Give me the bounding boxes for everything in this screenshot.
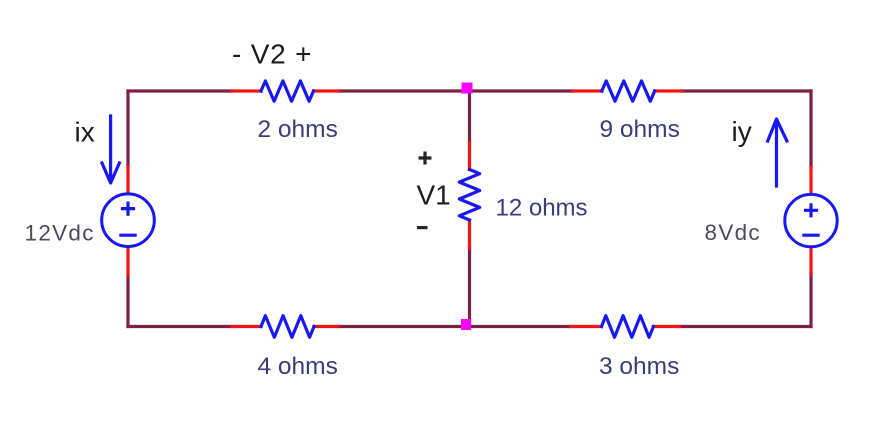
pin lead V12dc bottom <box>126 247 129 275</box>
wire left vertical lower <box>126 275 129 327</box>
source V2 plus sign <box>806 205 817 216</box>
resistor 9 ohms zigzag <box>602 81 655 101</box>
pin lead R12 bottom <box>468 220 471 248</box>
source V1 plus sign <box>123 203 134 214</box>
source V2 minus sign <box>804 234 818 237</box>
pin lead R4 left <box>232 325 261 328</box>
pin lead V12dc top <box>126 167 129 194</box>
pin lead R9 right <box>655 89 682 92</box>
wire middle vertical upper <box>468 91 471 143</box>
wire middle vertical lower <box>468 248 471 327</box>
source V2 8Vdc circle <box>785 194 837 246</box>
resistor 4 ohms zigzag <box>261 316 314 338</box>
wire bottom-left segment <box>128 325 232 328</box>
pin lead V8dc bottom <box>809 247 812 274</box>
wire top-middle segment <box>339 89 573 92</box>
pin lead R4 right <box>314 325 338 328</box>
label V1 minus sign <box>417 226 428 229</box>
wire left vertical upper <box>126 91 129 167</box>
wire top-left segment <box>128 89 232 92</box>
svg-text:2 ohms: 2 ohms <box>258 116 338 143</box>
source V1 minus sign <box>121 234 135 237</box>
svg-text:- V2 +: - V2 + <box>232 39 312 70</box>
svg-text:9 ohms: 9 ohms <box>600 116 680 143</box>
svg-text:4 ohms: 4 ohms <box>258 353 338 380</box>
svg-text:ix: ix <box>75 117 95 148</box>
svg-text:8Vdc: 8Vdc <box>705 220 761 245</box>
svg-text:3 ohms: 3 ohms <box>599 353 679 380</box>
wire right vertical upper <box>809 91 812 168</box>
current arrow iy <box>768 119 787 186</box>
label V1 plus sign <box>419 152 432 165</box>
pin lead R3 left <box>571 325 602 328</box>
current arrow ix <box>102 116 119 183</box>
svg-text:iy: iy <box>732 116 752 147</box>
wire bottom-right segment <box>679 325 811 328</box>
wire bottom-middle segment <box>338 325 571 328</box>
wire top-right segment <box>682 89 811 92</box>
pin lead R9 left <box>573 89 602 92</box>
pin lead R2 right <box>314 89 339 92</box>
wire right vertical lower <box>809 273 812 326</box>
resistor 2 ohms zigzag <box>261 81 314 101</box>
pin lead R12 top <box>468 143 471 170</box>
source V1 12Vdc circle <box>102 194 155 247</box>
resistor 3 ohms zigzag <box>602 316 654 338</box>
pin lead R2 left <box>232 89 262 92</box>
pin lead V8dc top <box>809 168 812 195</box>
resistor 12 ohms zigzag (vertical) <box>459 170 479 221</box>
pin lead R3 right <box>653 325 679 328</box>
svg-text:12Vdc: 12Vdc <box>25 221 95 246</box>
svg-text:V1: V1 <box>417 180 451 211</box>
svg-text:12 ohms: 12 ohms <box>496 195 588 222</box>
junction node bottom <box>461 319 471 330</box>
junction node top <box>462 83 473 94</box>
